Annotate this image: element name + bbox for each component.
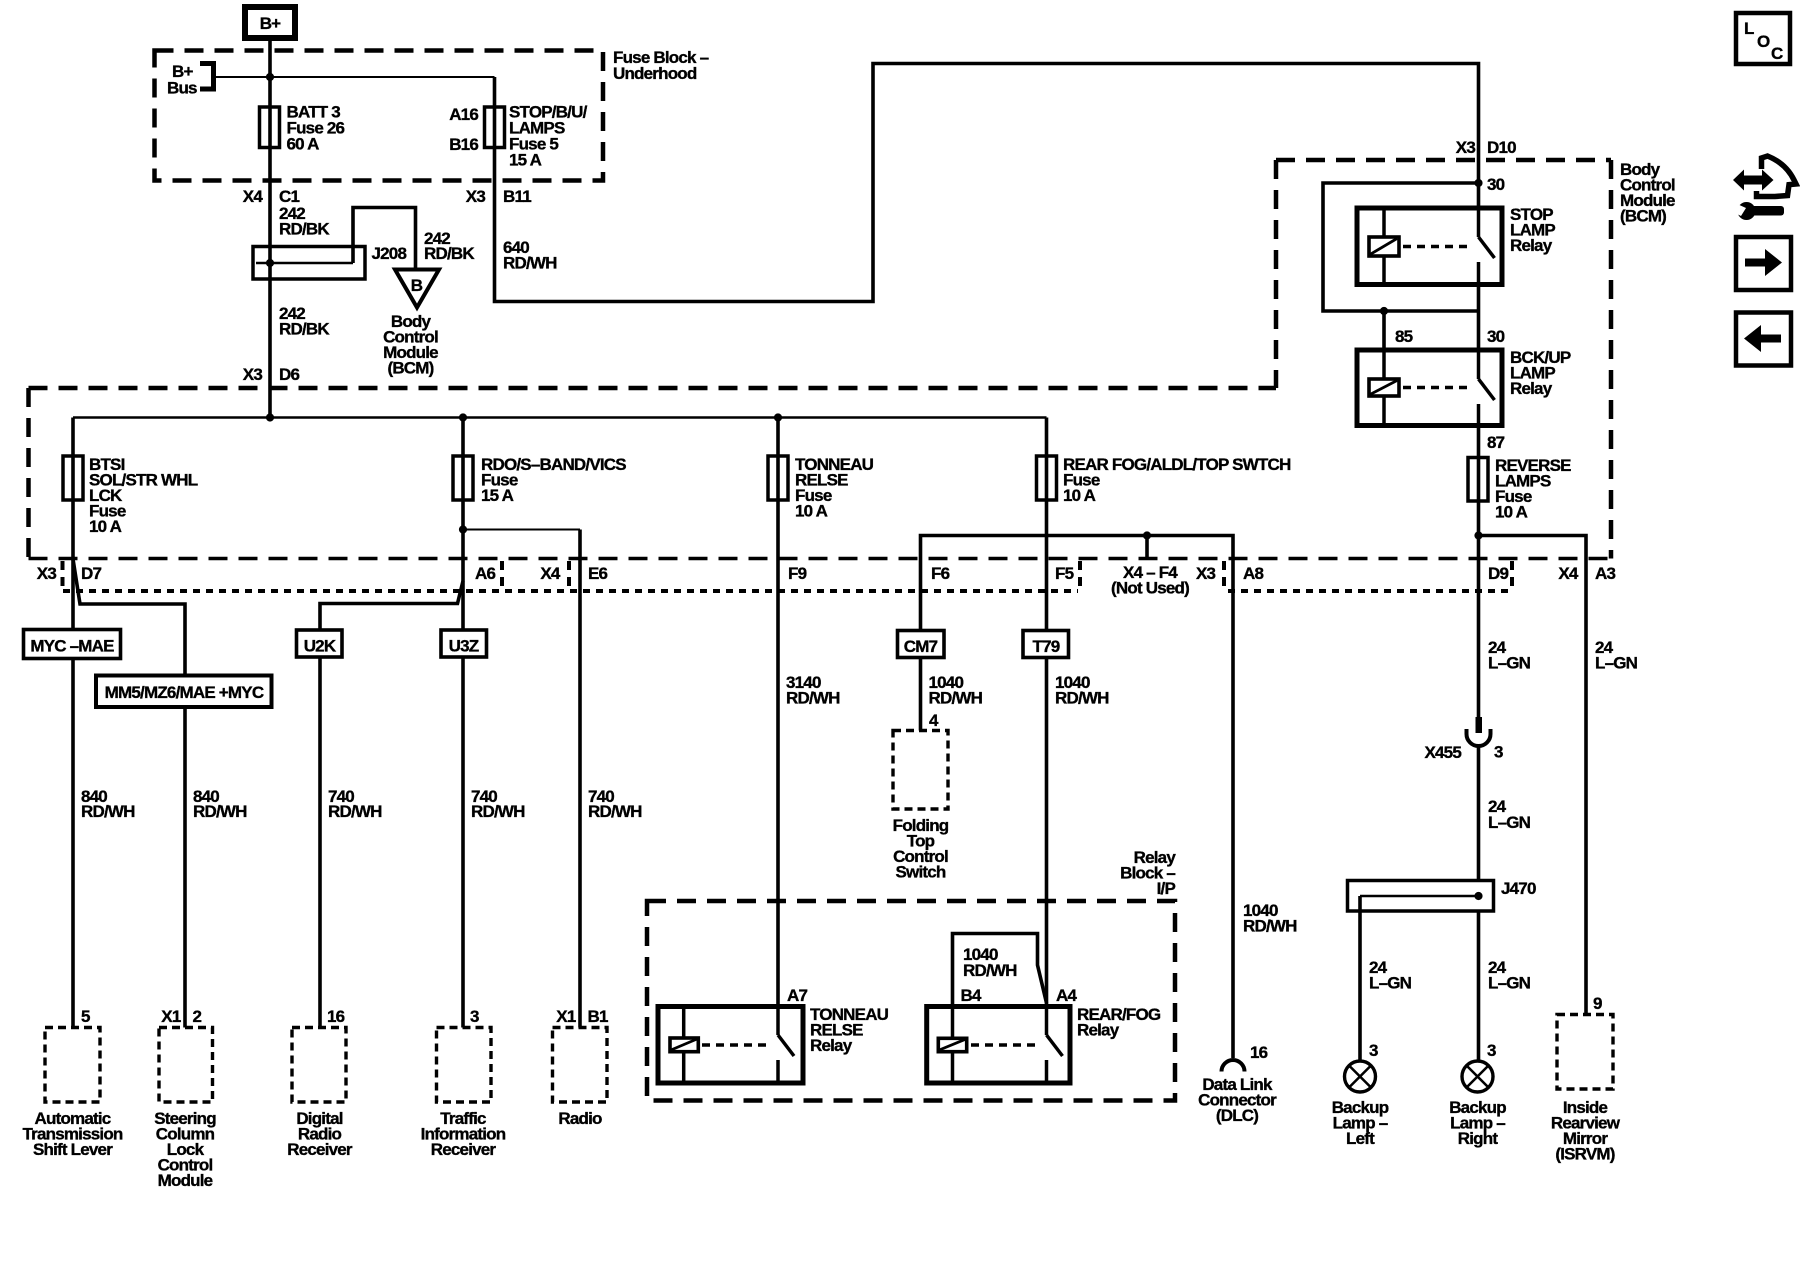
fuse TONNEAU RELSE 10A xyxy=(768,456,788,500)
svg-text:15 A: 15 A xyxy=(509,151,542,170)
option box MYC -MAE xyxy=(24,630,121,659)
option box U3Z xyxy=(441,630,487,657)
wire bus to BTSI fuse to D7 xyxy=(71,418,75,631)
svg-text:U3Z: U3Z xyxy=(449,637,479,656)
wire label 740 RD/WH xyxy=(328,787,382,821)
svg-text:RD/WH: RD/WH xyxy=(328,802,382,821)
svg-text:Receiver: Receiver xyxy=(287,1140,353,1159)
power bus wire inside fuse block xyxy=(73,416,1047,419)
steering column lock control module label xyxy=(154,1109,216,1190)
svg-text:4: 4 xyxy=(929,711,939,730)
svg-text:Shift Lever: Shift Lever xyxy=(33,1140,113,1159)
REAR FOG fuse value label xyxy=(1063,455,1291,505)
connector T79 xyxy=(1023,631,1069,658)
svg-text:L–GN: L–GN xyxy=(1595,654,1638,673)
automatic transmission shift lever label xyxy=(23,1109,123,1159)
junction reverse lamps branch xyxy=(1474,531,1482,539)
go-to right arrow icon xyxy=(1736,237,1791,290)
steering column lock control module connector box xyxy=(159,1028,213,1103)
svg-text:L–GN: L–GN xyxy=(1488,654,1531,673)
wire label 840 RD/WH xyxy=(193,787,247,821)
battery feed B+ symbol xyxy=(245,7,295,38)
svg-text:A7: A7 xyxy=(787,986,807,1005)
fuse REAR FOG/ALDL/TOP SWTCH 10A xyxy=(1037,456,1057,500)
svg-text:Underhood: Underhood xyxy=(613,64,697,83)
B+ bus wire thin xyxy=(214,76,495,78)
connector CM7 xyxy=(898,631,945,658)
svg-text:L–GN: L–GN xyxy=(1369,974,1412,993)
wire 242 RD/BK label (lower) xyxy=(279,304,330,339)
inside rearview mirror connector box xyxy=(1557,1015,1613,1090)
svg-text:D7: D7 xyxy=(81,564,101,583)
BATT 3 fuse value label xyxy=(287,103,345,154)
lamp backup left xyxy=(1345,1061,1376,1092)
svg-text:(Not Used): (Not Used) xyxy=(1111,579,1189,598)
wire J470 to backup lamp left 24 L-GN xyxy=(1358,896,1362,1061)
Body Control Module (BCM) destination label xyxy=(383,312,438,378)
svg-text:D9: D9 xyxy=(1488,564,1508,583)
svg-text:X4: X4 xyxy=(540,564,561,583)
fuse block label xyxy=(613,48,709,83)
fuse REVERSE LAMPS 10A xyxy=(1468,458,1488,502)
wire loop stop relay coil feed xyxy=(1323,183,1479,311)
junction B+ bus xyxy=(266,73,274,81)
option box MM5/MZ6/MAE +MYC xyxy=(96,676,272,708)
junction BCM feed xyxy=(1474,179,1482,187)
connector row bottom dotted line left segment xyxy=(63,589,1078,593)
svg-text:(BCM): (BCM) xyxy=(387,359,433,378)
svg-text:A6: A6 xyxy=(475,564,495,583)
svg-text:RD/WH: RD/WH xyxy=(929,689,983,708)
folding top control switch connector box xyxy=(893,731,948,810)
splice J470 xyxy=(1348,881,1494,912)
pin X4 / C1 labels xyxy=(243,187,300,206)
wire label 1040 RD/WH (T79) xyxy=(1055,673,1109,708)
svg-text:Right: Right xyxy=(1458,1129,1499,1148)
wire E6 down to radio xyxy=(578,530,582,1028)
junction bus at RDO fuse xyxy=(459,413,467,421)
traffic information receiver connector box xyxy=(437,1028,492,1103)
svg-text:F5: F5 xyxy=(1055,564,1074,583)
junction bus at D6 feed xyxy=(266,413,274,421)
wire label 1040 RD/WH (CM7) xyxy=(929,673,983,708)
connector row separator F5 xyxy=(1078,561,1082,592)
svg-text:O: O xyxy=(1757,32,1770,51)
Inside Rearview Mirror label xyxy=(1551,1098,1621,1164)
svg-text:D6: D6 xyxy=(279,365,299,384)
digital radio receiver connector box xyxy=(292,1028,346,1103)
svg-text:X3: X3 xyxy=(37,564,57,583)
Relay Block - I/P label xyxy=(1120,848,1176,898)
svg-text:RD/WH: RD/WH xyxy=(1055,689,1109,708)
wire stop relay output down to bck/up relay xyxy=(1477,285,1481,351)
wire CM7 to folding top control switch xyxy=(919,658,923,731)
svg-text:Relay: Relay xyxy=(1510,379,1553,398)
wire U3Z to traffic information receiver 740 RD/WH xyxy=(461,657,465,1028)
svg-text:RD/WH: RD/WH xyxy=(81,802,135,821)
svg-text:16: 16 xyxy=(327,1007,345,1026)
junction at J208 xyxy=(266,259,274,267)
STOP fuse value label xyxy=(509,103,588,170)
TONNEAU RELSE Relay label xyxy=(810,1005,889,1055)
svg-text:X455: X455 xyxy=(1424,743,1461,762)
svg-text:10 A: 10 A xyxy=(795,502,828,521)
svg-text:A3: A3 xyxy=(1595,564,1615,583)
wire B+ to fuse block and down through BATT fuse to X4/C1 and J208 and X3/D6 to bus xyxy=(268,38,272,418)
REVERSE LAMPS fuse value label xyxy=(1495,456,1571,522)
svg-text:3: 3 xyxy=(1487,1041,1496,1060)
svg-text:10 A: 10 A xyxy=(1495,503,1528,522)
svg-text:B1: B1 xyxy=(588,1007,608,1026)
svg-text:RD/WH: RD/WH xyxy=(588,802,642,821)
svg-text:3: 3 xyxy=(1494,743,1503,762)
svg-text:L–GN: L–GN xyxy=(1488,974,1531,993)
wire coil 85 drop xyxy=(1382,311,1386,350)
wire J208 to BCM B triangle 242 RD/BK xyxy=(353,208,416,269)
svg-text:RD/WH: RD/WH xyxy=(193,802,247,821)
svg-text:10 A: 10 A xyxy=(1063,486,1096,505)
connector row separator X3 xyxy=(1222,561,1226,592)
wire jog A6 to U2K feed xyxy=(320,581,463,630)
svg-text:B+: B+ xyxy=(260,14,281,33)
svg-text:MM5/MZ6/MAE +MYC: MM5/MZ6/MAE +MYC xyxy=(105,683,264,702)
wire branch to A3 inside rearview mirror xyxy=(1479,536,1587,1015)
relay STOP LAMP xyxy=(1357,208,1502,285)
wire label 3140 RD/WH (tonneau) xyxy=(786,673,840,708)
option box U2K xyxy=(297,630,343,657)
connector row bottom dotted line right segment xyxy=(1228,589,1508,593)
pin X1 / 2 labels xyxy=(161,1007,201,1026)
svg-text:15 A: 15 A xyxy=(481,486,514,505)
RDO fuse value label xyxy=(481,455,626,505)
svg-text:30: 30 xyxy=(1487,175,1505,194)
svg-text:D10: D10 xyxy=(1487,138,1516,157)
svg-text:60 A: 60 A xyxy=(287,135,320,154)
wire MYC-MAE to shift lever 840 RD/WH xyxy=(71,659,75,1028)
svg-text:X3: X3 xyxy=(243,365,263,384)
wire label 24 L-GN (D9 above X455) xyxy=(1488,638,1531,673)
wire jog D7 to steering column lock feed xyxy=(73,559,185,676)
fuse block underhood dashed box xyxy=(155,51,604,181)
svg-text:10 A: 10 A xyxy=(89,517,122,536)
relay TONNEAU RELSE xyxy=(658,1007,803,1084)
wire bus to TONNEAU fuse down to relay A7 xyxy=(776,418,780,1007)
automatic transmission shift lever connector box xyxy=(45,1028,100,1103)
fuse RDO/S-BAND/VICS 15A xyxy=(453,456,473,500)
svg-text:CM7: CM7 xyxy=(904,637,938,656)
TONNEAU fuse value label xyxy=(795,455,874,521)
svg-text:A16: A16 xyxy=(449,105,478,124)
fuse BTSI SOL/STR WHL LCK 10A xyxy=(63,456,83,500)
wire label 1040 RD/WH (DLC) xyxy=(1243,901,1297,936)
svg-text:X1: X1 xyxy=(161,1007,181,1026)
connector arc data link connector xyxy=(1222,1060,1245,1072)
Backup Lamp Left label xyxy=(1332,1098,1389,1148)
svg-text:T79: T79 xyxy=(1033,637,1060,656)
wire F5 distribution: F6 CM7 feed and A8 DLC feed xyxy=(921,536,1234,1059)
svg-text:9: 9 xyxy=(1593,994,1602,1013)
svg-text:X4: X4 xyxy=(1558,564,1579,583)
svg-text:B4: B4 xyxy=(961,986,982,1005)
fuse BATT 3 Fuse 26 60A xyxy=(260,107,280,148)
BCK/UP LAMP Relay label xyxy=(1510,348,1571,398)
svg-text:RD/WH: RD/WH xyxy=(471,802,525,821)
wire label 1040 RD/WH (flag) xyxy=(963,945,1017,980)
svg-text:B: B xyxy=(411,276,423,295)
wire label 24 L-GN (left lamp) xyxy=(1369,958,1412,993)
svg-text:F6: F6 xyxy=(931,564,950,583)
wire label 740 RD/WH xyxy=(471,787,525,821)
svg-text:RD/WH: RD/WH xyxy=(503,254,557,273)
wire MM5 to steering column lock 840 RD/WH xyxy=(183,707,187,1028)
svg-text:B16: B16 xyxy=(449,135,478,154)
wire X455 to J470 xyxy=(1477,745,1481,881)
wire flag B4 jumper with 1040 RD/WH label xyxy=(953,934,1047,1007)
fuse block dashed box left edge xyxy=(26,388,31,559)
junction bus at TONNEAU fuse xyxy=(774,413,782,421)
svg-text:Module: Module xyxy=(158,1171,213,1190)
svg-text:F9: F9 xyxy=(788,564,807,583)
wire bus corner to REAR FOG fuse down to T79 and relay A4 xyxy=(1045,418,1049,1007)
svg-text:X3: X3 xyxy=(466,187,486,206)
wire U2K to digital radio receiver 740 RD/WH xyxy=(318,657,322,1028)
wire 242 RD/BK label (right of J208) xyxy=(424,229,475,263)
relay block I/P dashed box xyxy=(647,901,1175,1101)
body control module dashed box xyxy=(1276,160,1611,559)
svg-text:RD/WH: RD/WH xyxy=(963,961,1017,980)
svg-text:Relay: Relay xyxy=(1510,236,1553,255)
STOP LAMP Relay label xyxy=(1510,205,1555,255)
svg-text:U2K: U2K xyxy=(304,637,337,656)
wire label 24 L-GN (right lamp) xyxy=(1488,958,1531,993)
svg-text:MYC –MAE: MYC –MAE xyxy=(30,637,114,656)
svg-text:I/P: I/P xyxy=(1157,879,1176,898)
svg-text:Bus: Bus xyxy=(167,79,197,98)
lamp backup right xyxy=(1462,1061,1493,1092)
BTSI fuse value label xyxy=(89,455,198,536)
svg-text:RD/BK: RD/BK xyxy=(424,244,475,263)
wire stub X4-F4 not used xyxy=(1145,536,1149,560)
wire bck/up relay 87 through reverse lamps fuse to D9 xyxy=(1477,426,1481,720)
svg-text:J470: J470 xyxy=(1501,879,1536,898)
fuse STOP/B/U/LAMPS Fuse 5 15A xyxy=(485,107,505,148)
connector row separator D9/X4 xyxy=(1510,561,1514,592)
connector row separator A6/X4 xyxy=(500,561,504,592)
traffic information receiver label xyxy=(421,1109,506,1159)
wire label 840 RD/WH xyxy=(81,787,135,821)
refer icon double arrow with hook and wrench xyxy=(1731,156,1796,220)
splice J208 xyxy=(253,247,365,280)
pin X3 / D6 labels xyxy=(243,365,300,384)
B+ Bus bracket xyxy=(200,64,214,90)
wire label 740 RD/WH (radio) xyxy=(588,787,642,821)
node B triangle to Body Control Module xyxy=(395,270,439,308)
locator LOC box icon xyxy=(1736,13,1790,64)
svg-text:(ISRVM): (ISRVM) xyxy=(1555,1145,1614,1164)
fuse block dashed box (interior) top edge xyxy=(29,386,1277,391)
svg-text:85: 85 xyxy=(1395,327,1413,346)
svg-text:X1: X1 xyxy=(556,1007,576,1026)
connector row separator X3/D7 xyxy=(61,561,65,592)
svg-text:2: 2 xyxy=(193,1007,202,1026)
svg-text:E6: E6 xyxy=(588,564,608,583)
junction X4-F4 stub xyxy=(1143,531,1151,539)
wire label 24 L-GN (below X455) xyxy=(1488,797,1531,832)
svg-text:RD/BK: RD/BK xyxy=(279,220,330,239)
REAR/FOG Relay label xyxy=(1077,1005,1161,1040)
svg-text:5: 5 xyxy=(81,1007,90,1026)
svg-text:(DLC): (DLC) xyxy=(1216,1106,1258,1125)
connector row top dashed line / box bottom xyxy=(29,557,1612,560)
svg-text:X4: X4 xyxy=(243,187,264,206)
inline connector X455 xyxy=(1467,717,1491,746)
wire 242 RD/BK label (upper) xyxy=(279,204,330,239)
svg-text:L–GN: L–GN xyxy=(1488,813,1531,832)
pin X3 / D10 labels xyxy=(1456,138,1516,157)
svg-text:Receiver: Receiver xyxy=(431,1140,497,1159)
svg-text:Left: Left xyxy=(1346,1129,1375,1148)
folding top control switch label xyxy=(893,816,949,882)
svg-text:Switch: Switch xyxy=(896,863,946,882)
svg-text:X3: X3 xyxy=(1196,564,1216,583)
connector row separator X4/E6 xyxy=(567,561,571,592)
svg-text:Radio: Radio xyxy=(558,1109,602,1128)
svg-text:(BCM): (BCM) xyxy=(1620,207,1666,226)
svg-text:Relay: Relay xyxy=(1077,1021,1120,1040)
svg-text:3: 3 xyxy=(1369,1041,1378,1060)
B+ Bus label xyxy=(167,62,197,98)
junction at J470 xyxy=(1474,892,1482,900)
from left arrow icon xyxy=(1736,313,1791,366)
svg-text:3: 3 xyxy=(470,1007,479,1026)
wire label 24 L-GN (A3) xyxy=(1595,638,1638,673)
svg-text:30: 30 xyxy=(1487,327,1505,346)
relay BCK/UP LAMP xyxy=(1357,350,1502,426)
svg-text:RD/WH: RD/WH xyxy=(1243,917,1297,936)
wire 640 RD/WH label xyxy=(503,238,557,273)
pin X3 / B11 labels xyxy=(466,187,531,206)
svg-text:B11: B11 xyxy=(503,187,531,206)
Data Link Connector (DLC) label xyxy=(1198,1075,1277,1125)
svg-text:A4: A4 xyxy=(1056,986,1077,1005)
svg-text:16: 16 xyxy=(1250,1043,1268,1062)
svg-text:RD/WH: RD/WH xyxy=(786,689,840,708)
svg-text:J208: J208 xyxy=(372,244,407,263)
wire bus to RDO fuse down to U3Z xyxy=(461,418,465,631)
wire STOP fuse B11 640 RD/WH to BCM: down, right, up, right xyxy=(495,64,1479,302)
digital radio receiver label xyxy=(287,1109,353,1159)
svg-text:X3: X3 xyxy=(1456,138,1476,157)
svg-text:87: 87 xyxy=(1487,433,1505,452)
svg-text:A8: A8 xyxy=(1243,564,1263,583)
svg-text:RD/BK: RD/BK xyxy=(279,320,330,339)
wire branch to E6 radio feed xyxy=(463,529,580,531)
Backup Lamp Right label xyxy=(1449,1098,1506,1148)
junction RDO branch to E6 xyxy=(459,525,467,533)
Body Control Module (BCM) label xyxy=(1620,160,1675,226)
svg-text:Relay: Relay xyxy=(810,1036,853,1055)
junction coil pin 85 xyxy=(1380,307,1388,315)
pin X1 / B1 labels xyxy=(556,1007,608,1026)
pin X4-F4 not used label xyxy=(1111,563,1189,598)
wire J470 to backup lamp right xyxy=(1477,911,1481,1061)
radio connector box xyxy=(553,1028,608,1103)
svg-text:C: C xyxy=(1771,44,1783,63)
relay REAR/FOG xyxy=(927,1007,1070,1084)
svg-text:L: L xyxy=(1744,19,1754,38)
